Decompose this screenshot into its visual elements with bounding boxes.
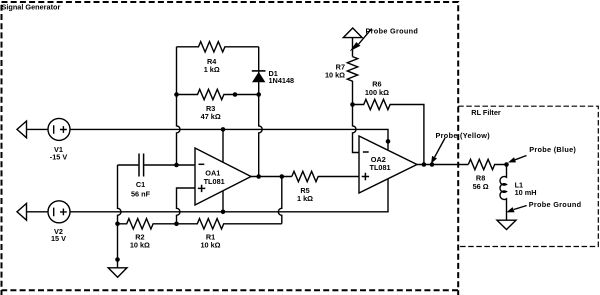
svg-text:Probe (Blue): Probe (Blue) xyxy=(529,145,576,154)
svg-text:1 kΩ: 1 kΩ xyxy=(297,194,313,203)
wire R7 bottom to OA2 inverting input (hop over V1 row) xyxy=(353,105,360,153)
wire port to V1 xyxy=(27,128,49,130)
ground xyxy=(108,268,127,277)
svg-text:Signal Generator: Signal Generator xyxy=(2,3,61,12)
voltage source V2 xyxy=(48,201,70,223)
svg-text:10 kΩ: 10 kΩ xyxy=(200,241,220,250)
resistor R6 xyxy=(353,99,424,164)
node R3 right xyxy=(256,92,261,97)
probe ground symbol (rl filter) xyxy=(497,220,516,229)
node OA2 V+ xyxy=(386,139,391,144)
wire OA1 output xyxy=(251,176,292,178)
diode D1 xyxy=(252,70,266,72)
wire OA1 V- stub xyxy=(222,191,224,212)
op-amp OA1 xyxy=(195,148,251,205)
capacitor C1 xyxy=(118,164,139,166)
svg-text:56 Ω: 56 Ω xyxy=(473,182,489,191)
node OA1 V- on V2 row xyxy=(221,210,226,215)
node R2/R1 junction xyxy=(174,222,179,227)
probe ground arrow (top) xyxy=(359,29,372,44)
wire V1 row to OA2 V+ pin xyxy=(70,129,388,150)
svg-text:56 nF: 56 nF xyxy=(131,189,151,198)
svg-text:Probe (Yellow): Probe (Yellow) xyxy=(436,131,491,140)
wire right branch of loop / D1 branch (with hop over V1 row) xyxy=(259,47,262,177)
resistor R8 xyxy=(468,159,506,169)
svg-text:RL Filter: RL Filter xyxy=(471,108,501,117)
probe (yellow) arrow xyxy=(435,138,445,157)
probe (blue) arrow xyxy=(515,156,527,160)
port flag (V1 input) xyxy=(17,121,27,138)
wire OA1 non-inverting input to R2/R1 node (hop over V2 row) xyxy=(177,188,196,224)
node on R3 row xyxy=(233,92,238,97)
svg-text:15 V: 15 V xyxy=(51,234,66,243)
node C1 right / OA1 inverting input xyxy=(174,163,179,168)
svg-text:10 kΩ: 10 kΩ xyxy=(325,71,345,80)
wire V2 row to OA2 V- pin xyxy=(70,179,388,212)
svg-text:TL081: TL081 xyxy=(204,177,225,186)
node R3 left xyxy=(174,92,179,97)
signal generator dashed box xyxy=(2,2,459,290)
wire R1 right feedback to OA1 output (hop over V2 row) xyxy=(278,177,282,224)
svg-text:Probe Ground: Probe Ground xyxy=(366,26,419,35)
node OA1 output junction xyxy=(256,174,261,179)
svg-text:Probe Ground: Probe Ground xyxy=(529,200,582,209)
svg-text:1N4148: 1N4148 xyxy=(269,76,295,85)
svg-text:1 kΩ: 1 kΩ xyxy=(204,65,220,74)
probe ground symbol (top) xyxy=(343,28,362,38)
wire C1 left to ground (hop over V2 row) xyxy=(118,165,122,268)
svg-text:C1: C1 xyxy=(136,180,145,189)
rl filter dashed box xyxy=(458,106,598,246)
wire probe ground to R7 xyxy=(352,38,354,57)
inductor L1 xyxy=(500,165,506,221)
wire OA2 output row into RL filter xyxy=(417,164,468,166)
node R6/R7 junction xyxy=(350,102,355,107)
resistor R3 xyxy=(177,89,259,99)
svg-text:10 mH: 10 mH xyxy=(515,188,537,197)
resistor R4 xyxy=(177,42,259,52)
node R2 left xyxy=(115,222,120,227)
resistor R2 xyxy=(118,219,177,229)
wire port to V2 xyxy=(27,211,49,213)
port flag (V2 input) xyxy=(17,203,27,220)
svg-text:100 kΩ: 100 kΩ xyxy=(365,88,389,97)
svg-text:TL081: TL081 xyxy=(370,163,391,172)
resistor R5 xyxy=(292,171,359,181)
node ground stub xyxy=(115,257,120,262)
op-amp OA2 xyxy=(359,136,417,193)
wire OA1 V+ stub xyxy=(222,129,224,162)
resistor R7 xyxy=(347,57,357,105)
probe ground arrow (rl filter) xyxy=(514,206,527,210)
node feedback on output row xyxy=(280,174,285,179)
svg-text:47 kΩ: 47 kΩ xyxy=(201,112,221,121)
node R6 feedback on output xyxy=(422,162,427,167)
svg-text:10 kΩ: 10 kΩ xyxy=(130,241,150,250)
voltage source V1 xyxy=(48,118,70,140)
node OA1 V+ on V1 row xyxy=(221,127,226,132)
svg-text:-15 V: -15 V xyxy=(50,153,68,162)
resistor R1 xyxy=(177,219,282,229)
wire left branch of R4 loop (with hop over V1 row) xyxy=(177,47,180,165)
